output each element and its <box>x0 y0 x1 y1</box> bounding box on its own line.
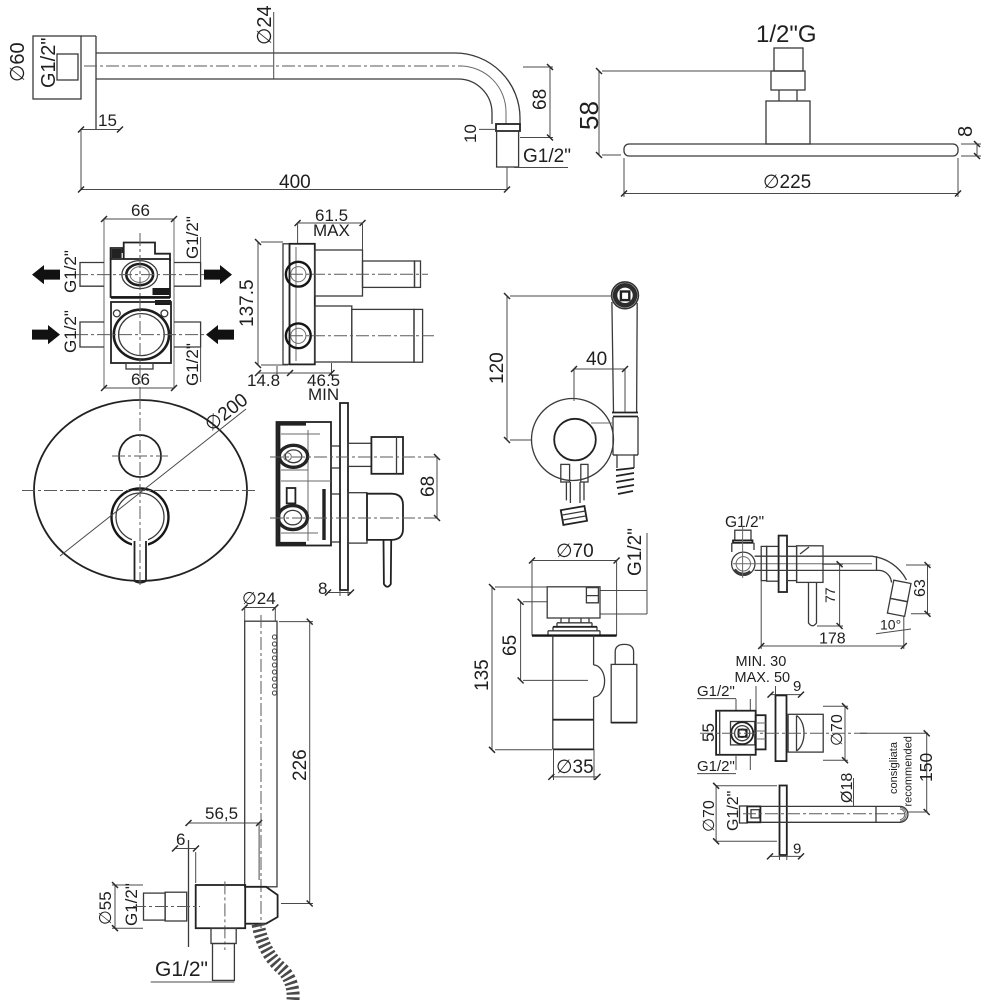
dim 40 <box>574 369 625 412</box>
trim knob <box>788 714 823 752</box>
handle knob <box>615 644 633 664</box>
svg-text:∅24: ∅24 <box>254 5 276 45</box>
svg-text:G1/2": G1/2" <box>61 250 80 293</box>
svg-text:56,5: 56,5 <box>205 804 238 823</box>
svg-text:MIN. 30: MIN. 30 <box>736 654 787 670</box>
body port top screw <box>284 453 292 461</box>
handle nut <box>612 413 638 417</box>
stop valve body <box>716 711 756 755</box>
cartridge hatch <box>756 723 766 739</box>
wall union <box>547 587 600 618</box>
centerline lever <box>270 517 437 519</box>
elbow round <box>732 552 755 575</box>
flow arrow out left <box>32 265 60 284</box>
port center square <box>739 730 747 737</box>
ext lines top <box>736 686 776 711</box>
holder inner ring <box>554 419 596 461</box>
upper pipe <box>363 261 415 287</box>
svg-text:G1/2": G1/2" <box>183 216 202 259</box>
svg-text:∅70: ∅70 <box>556 541 594 562</box>
dim 8 head <box>961 144 981 156</box>
svg-text:68: 68 <box>418 476 439 497</box>
svg-text:8: 8 <box>955 126 977 137</box>
escutcheon line <box>553 626 597 628</box>
outlet centerline vertical <box>224 881 226 950</box>
stub bottom-right <box>174 322 201 347</box>
port circle mid <box>735 726 750 741</box>
svg-text:10°: 10° <box>880 617 901 633</box>
svg-text:1/2"G: 1/2"G <box>756 21 817 48</box>
svg-text:∅24: ∅24 <box>242 589 276 608</box>
lower pipe <box>352 309 414 362</box>
wand buttons <box>272 635 276 695</box>
svg-text:120: 120 <box>487 352 508 384</box>
svg-text:MIN: MIN <box>308 385 339 404</box>
rough-in box <box>104 219 174 388</box>
top port inner <box>291 267 306 282</box>
svg-text:G1/2": G1/2" <box>697 758 735 775</box>
svg-text:G1/2": G1/2" <box>697 683 735 700</box>
svg-text:8: 8 <box>318 579 327 598</box>
connector inner <box>751 810 759 818</box>
body inner lines <box>281 430 331 541</box>
collar chamfer <box>800 547 809 554</box>
svg-text:226: 226 <box>290 749 311 781</box>
port circle inner <box>738 729 746 737</box>
nozzle collar right <box>581 464 588 482</box>
valve body side <box>277 422 332 546</box>
lever ring inner <box>116 493 164 541</box>
dim 226 <box>279 622 313 904</box>
sprayer head ring <box>615 285 635 305</box>
wand holder cup <box>245 887 277 924</box>
hose nut <box>211 928 236 943</box>
body left line <box>719 711 721 755</box>
body bottom dark edge <box>277 542 306 545</box>
stub top-right <box>174 263 201 287</box>
dim 15 <box>81 129 120 131</box>
outlet centerline horizontal <box>133 906 200 908</box>
dim 58 <box>602 71 771 155</box>
pipe bulge <box>594 665 605 697</box>
svg-text:∅70: ∅70 <box>829 714 846 746</box>
centerline bottom ports <box>75 334 205 336</box>
svg-text:G1/2": G1/2" <box>183 343 202 386</box>
lower pipe end cap <box>414 309 423 362</box>
collar <box>771 71 805 90</box>
plate centerline vertical <box>139 396 141 586</box>
escutcheon plate <box>340 403 348 590</box>
diverter top step <box>111 243 170 262</box>
svg-text:G1/2": G1/2" <box>61 310 80 353</box>
pipe divisions <box>553 720 594 750</box>
arm end G1/2 block <box>497 131 519 167</box>
mixer cartridge ring inner <box>119 314 165 356</box>
lever body <box>367 494 403 540</box>
svg-text:9: 9 <box>793 841 801 858</box>
body port bottom <box>278 506 307 530</box>
dim 137.5 <box>261 242 288 365</box>
knob face <box>797 716 805 752</box>
wall line <box>81 36 96 130</box>
svg-text:40: 40 <box>586 349 607 370</box>
dim 178 <box>761 581 904 649</box>
diverter port outer <box>122 261 158 289</box>
screw right <box>161 310 168 317</box>
sprayer head square <box>621 292 629 301</box>
flow arrow in right <box>206 325 234 344</box>
stub top-left <box>80 263 104 287</box>
neck <box>779 90 797 101</box>
elbow body <box>732 543 754 552</box>
wall plate <box>776 695 787 761</box>
threaded nipple <box>57 54 78 80</box>
dim 120 <box>510 296 612 440</box>
ext lines bottom <box>736 755 750 770</box>
wall plate <box>780 786 787 856</box>
elbow center line <box>742 526 744 578</box>
svg-text:10: 10 <box>461 124 480 143</box>
svg-text:MAX. 50: MAX. 50 <box>735 670 791 686</box>
dim 14.8 and 46.5 MIN <box>277 363 332 376</box>
lever ring outer <box>112 489 169 546</box>
inlet nipple <box>735 530 751 540</box>
body left dark edge <box>277 422 280 546</box>
plate centerline horizontal <box>22 490 258 492</box>
body port bottom inner <box>284 510 302 524</box>
spout wall plate <box>779 536 787 592</box>
svg-text:∅60: ∅60 <box>7 42 29 82</box>
flow arrow out right <box>204 265 232 284</box>
sprayer handle <box>612 302 637 412</box>
arm centerline <box>84 65 462 67</box>
dim 6 <box>195 852 197 883</box>
knob centerline <box>112 455 168 457</box>
arm bend middle line <box>461 66 506 124</box>
centerline bottom pipe <box>290 335 434 337</box>
nozzle shaft <box>566 482 584 503</box>
drain rod <box>809 582 817 626</box>
body inner line <box>295 247 297 361</box>
dim 56,5 <box>258 823 260 880</box>
mixer body <box>111 302 171 363</box>
mixer cartridge ring outer <box>114 310 169 360</box>
dim 8 plate <box>340 590 348 596</box>
body port top inner <box>285 450 302 463</box>
svg-text:15: 15 <box>98 111 117 130</box>
arm end collar <box>496 124 520 131</box>
screw left <box>113 310 120 317</box>
svg-text:137.5: 137.5 <box>237 279 258 327</box>
svg-text:∅35: ∅35 <box>556 757 594 778</box>
shower head plate <box>624 144 958 156</box>
wall flange <box>33 36 81 99</box>
dim 65 <box>523 602 588 681</box>
elbow inner <box>736 557 750 571</box>
svg-text:55: 55 <box>699 723 718 742</box>
sprayer body in holder <box>613 417 638 455</box>
svg-text:14.8: 14.8 <box>247 371 280 390</box>
spout centerline <box>743 813 905 815</box>
supply stub outer <box>144 893 166 920</box>
spout nut right <box>787 546 797 580</box>
angle reference line <box>876 629 911 634</box>
centerline extension to 150 <box>908 811 928 813</box>
svg-text:∅55: ∅55 <box>96 891 115 925</box>
spout tube <box>755 556 907 582</box>
supply stub inner <box>165 892 187 921</box>
spout collar <box>797 546 823 583</box>
dim phi55 bracket <box>112 885 143 928</box>
dim phi200 diagonal <box>60 409 246 556</box>
centerline top ports <box>75 274 205 276</box>
tube joint <box>876 556 878 570</box>
connector bottom <box>331 494 340 542</box>
leader phi24 <box>273 12 275 79</box>
bottom port inner <box>291 328 306 343</box>
connector top <box>331 446 340 468</box>
hose connector <box>213 944 235 981</box>
handle bottom <box>611 722 637 724</box>
diverter port inner <box>130 267 149 283</box>
svg-text:∅225: ∅225 <box>763 172 811 193</box>
dim 135 <box>495 587 552 750</box>
svg-text:G1/2": G1/2" <box>625 528 646 576</box>
stub bottom-left <box>80 322 104 347</box>
knob face line <box>396 437 398 474</box>
svg-text:150: 150 <box>916 753 936 782</box>
lever hub <box>348 493 367 543</box>
dim phi70 trim <box>823 706 848 760</box>
svg-text:77: 77 <box>822 587 838 603</box>
svg-text:400: 400 <box>279 172 311 193</box>
spout tip aerator <box>887 580 911 616</box>
nipple collar <box>733 540 753 542</box>
svg-text:consigliata: consigliata <box>888 741 900 794</box>
wand handle <box>245 621 277 887</box>
dim 77 <box>817 564 843 626</box>
connector nut <box>740 806 748 823</box>
lever rod <box>384 540 392 587</box>
ring gap mask <box>132 538 148 549</box>
valve pipe <box>553 636 594 750</box>
handle body <box>611 664 637 722</box>
dim 9 plate <box>780 855 787 860</box>
diverter body <box>111 259 170 297</box>
centerline top pipe <box>290 273 428 275</box>
spout tube <box>760 806 908 822</box>
leader holder <box>591 422 612 424</box>
knob shaft <box>348 443 371 466</box>
shower arm tube <box>96 53 520 124</box>
svg-text:G1/2": G1/2" <box>155 958 208 981</box>
centerline <box>700 732 868 734</box>
lower block <box>315 306 352 362</box>
svg-text:recommended: recommended <box>903 736 915 806</box>
centerline knob <box>270 456 437 458</box>
dim phi70 plate <box>716 786 777 842</box>
flow arrow in left <box>32 325 60 344</box>
stem <box>548 618 600 636</box>
dim 68 <box>436 457 438 518</box>
cartridge extension <box>756 715 766 749</box>
svg-text:178: 178 <box>819 631 846 648</box>
spout mid line <box>733 563 872 565</box>
MIN mark <box>155 300 171 305</box>
svg-text:G1/2": G1/2" <box>122 883 141 926</box>
port square <box>731 722 755 745</box>
svg-text:68: 68 <box>530 89 551 110</box>
dim phi225 <box>624 158 958 197</box>
dim phi35 <box>554 749 595 780</box>
svg-text:58: 58 <box>574 101 604 130</box>
upper outlet block <box>315 250 363 296</box>
mounting block <box>766 101 810 144</box>
centerline vertical <box>139 233 141 400</box>
svg-text:65: 65 <box>500 635 521 656</box>
hose <box>258 924 293 1000</box>
tube division <box>875 806 877 822</box>
wall line <box>532 634 617 636</box>
bottom port boss <box>286 323 311 348</box>
dim 66 top <box>104 218 174 220</box>
wall plate side <box>283 244 290 365</box>
body right dark bar <box>322 489 325 540</box>
top port boss <box>286 262 311 287</box>
body divider <box>111 296 170 298</box>
wall line <box>188 840 190 947</box>
holder outer ring <box>532 399 614 481</box>
union port square <box>586 588 598 603</box>
nozzle collar left <box>561 464 570 482</box>
diverter knob <box>119 435 161 477</box>
svg-text:MAX: MAX <box>313 221 350 240</box>
svg-text:66: 66 <box>131 201 150 220</box>
dim 400 <box>81 130 507 190</box>
svg-text:9: 9 <box>793 678 801 695</box>
lever handle <box>135 541 147 583</box>
svg-text:G1/2": G1/2" <box>725 514 764 531</box>
body mid dark stub <box>287 488 296 503</box>
tube end mesh <box>900 807 906 821</box>
svg-text:135: 135 <box>472 659 493 691</box>
connector block <box>747 806 760 822</box>
spout nut big <box>767 546 779 581</box>
MAX mark <box>153 288 170 295</box>
dim 150 <box>860 732 928 734</box>
port circle outer <box>731 722 753 744</box>
outlet body <box>196 885 246 928</box>
upper pipe end cap <box>415 261 421 287</box>
svg-text:63: 63 <box>912 579 929 597</box>
spout nut small <box>761 546 766 580</box>
mixer bottom tab <box>126 363 153 369</box>
dim 10 <box>479 128 497 130</box>
sprayer lower body <box>613 455 638 468</box>
sprayer head outer <box>612 282 639 309</box>
dim 66 bottom <box>104 387 174 389</box>
svg-text:G1/2": G1/2" <box>523 146 571 167</box>
diverter knob side <box>371 437 403 474</box>
dim 63 <box>906 565 931 614</box>
wand centerline <box>260 615 262 928</box>
svg-text:∅70: ∅70 <box>701 800 718 832</box>
svg-text:6: 6 <box>176 830 185 849</box>
body top dark edge <box>277 422 306 425</box>
threaded inlet pipe <box>774 48 803 71</box>
dim 68 arm <box>520 67 553 138</box>
valve body side <box>290 244 315 365</box>
body port top <box>279 445 307 467</box>
diverter cap dark tab <box>112 249 122 258</box>
svg-text:G1/2": G1/2" <box>38 38 60 88</box>
ext line right top <box>200 237 202 382</box>
diverter port ring <box>126 264 153 285</box>
hose spring <box>616 468 634 494</box>
elbow shade <box>735 570 751 575</box>
round plate <box>34 400 247 581</box>
nozzle tip <box>561 506 587 525</box>
